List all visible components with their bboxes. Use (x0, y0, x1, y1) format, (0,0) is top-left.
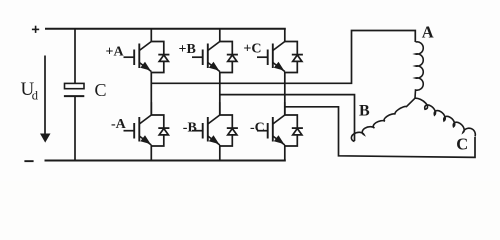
svg-text:+C: +C (243, 42, 261, 57)
svg-text:-B: -B (183, 121, 197, 136)
svg-text:B: B (359, 103, 370, 120)
svg-text:+B: +B (179, 42, 196, 57)
svg-text:C: C (456, 135, 468, 154)
svg-text:-A: -A (111, 117, 127, 132)
svg-text:-C: -C (250, 121, 265, 136)
svg-text:+A: +A (106, 45, 125, 60)
svg-text:d: d (32, 89, 39, 103)
svg-text:A: A (422, 22, 434, 41)
svg-text:C: C (95, 80, 107, 100)
